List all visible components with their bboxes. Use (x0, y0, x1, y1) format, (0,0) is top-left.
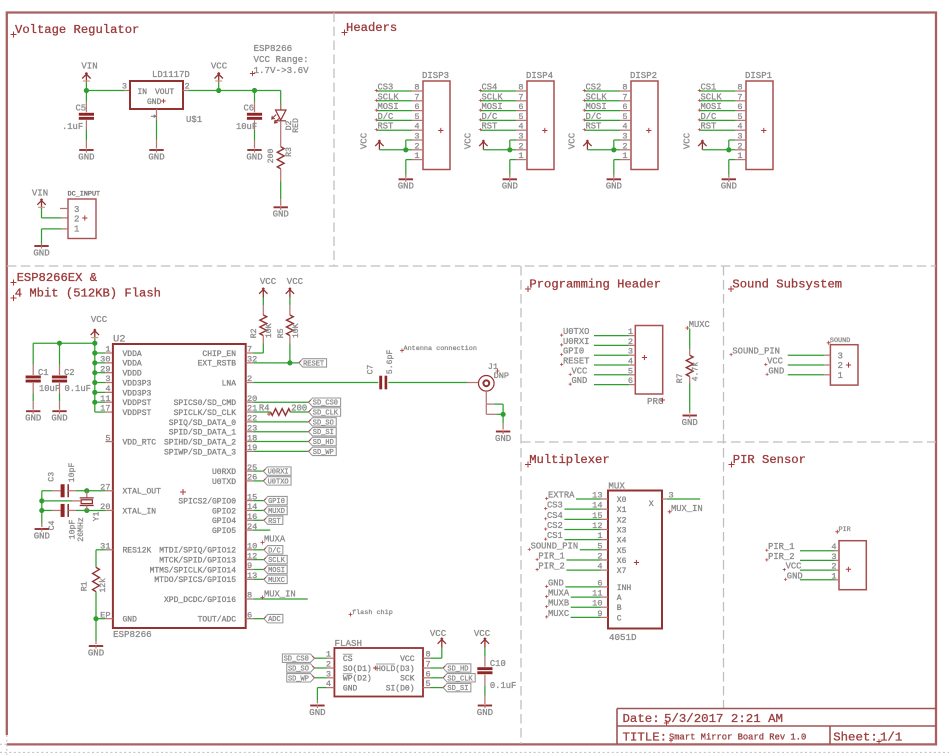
svg-text:GND: GND (273, 210, 289, 220)
U2 pin 21 (246, 411, 254, 413)
junction J1 shield (501, 412, 506, 417)
DISP1 pin 3 (735, 139, 746, 141)
U2 pin 8 (246, 598, 254, 600)
svg-text:VDD3P3: VDD3P3 (123, 379, 152, 388)
svg-text:VIN: VIN (32, 189, 48, 199)
svg-text:MOSI: MOSI (268, 567, 285, 575)
net flag SD_CLK (309, 408, 341, 416)
svg-text:6: 6 (247, 610, 252, 620)
svg-text:SCLK: SCLK (378, 92, 400, 102)
svg-text:SD_CS0: SD_CS0 (313, 400, 338, 408)
net flag SD_SO (309, 418, 337, 426)
svg-text:MOSI: MOSI (482, 102, 503, 112)
wire DISP2 pin 1 to ground (614, 159, 620, 161)
DISP4 pin 7 (516, 100, 527, 102)
DISP2 pin 5 (620, 119, 631, 121)
svg-text:U$1: U$1 (186, 115, 202, 125)
svg-text:200: 200 (267, 149, 276, 164)
svg-text:10uF: 10uF (236, 122, 257, 132)
DISP4 pin 2 (516, 149, 527, 151)
svg-text:PIR_1: PIR_1 (538, 551, 564, 561)
wire RES12K to R1 (96, 549, 105, 551)
svg-text:11: 11 (592, 589, 602, 599)
svg-text:VOUT: VOUT (155, 88, 174, 97)
svg-text:5.6pF: 5.6pF (386, 350, 395, 375)
svg-text:4 Mbit (512KB) Flash: 4 Mbit (512KB) Flash (15, 287, 161, 301)
DISP3 pin 8 (412, 90, 423, 92)
net flag D/C (264, 546, 283, 554)
net flag U0TXO (263, 477, 291, 485)
svg-text:4: 4 (622, 122, 627, 132)
capacitor C5 (85, 91, 87, 102)
svg-text:11: 11 (100, 394, 110, 404)
svg-text:27: 27 (100, 482, 110, 492)
U2 pin 20 (246, 401, 254, 403)
svg-text:GND: GND (477, 708, 493, 718)
svg-text:VCC: VCC (767, 357, 783, 367)
svg-text:SO(D1): SO(D1) (343, 665, 372, 674)
supply VCC R5 (286, 288, 294, 298)
svg-text:2: 2 (414, 141, 419, 151)
DISP2 pin 7 (620, 100, 631, 102)
ground U$1 (149, 149, 163, 151)
svg-text:XTAL_OUT: XTAL_OUT (123, 488, 162, 497)
svg-text:C5: C5 (75, 104, 86, 114)
DISP2 pin 4 (620, 129, 631, 131)
svg-text:CHIP_EN: CHIP_EN (202, 350, 236, 359)
svg-text:MUX_IN: MUX_IN (671, 504, 703, 514)
svg-text:ESP8266: ESP8266 (254, 43, 293, 54)
svg-text:4: 4 (628, 357, 633, 367)
svg-text:VDDPST: VDDPST (123, 409, 152, 418)
net flag SCLK (264, 555, 287, 563)
svg-text:VCC: VCC (464, 132, 474, 149)
wire R7 to ground (689, 377, 691, 384)
svg-text:R4: R4 (259, 403, 270, 413)
DISP4 pin 5 (516, 119, 527, 121)
wire R3 to ground (280, 169, 282, 182)
svg-text:SPID/SD_DATA_1: SPID/SD_DATA_1 (169, 429, 236, 438)
net flag U0RXI (263, 467, 291, 475)
svg-text:TOUT/ADC: TOUT/ADC (198, 616, 237, 625)
svg-text:2: 2 (247, 374, 252, 384)
DISP4 pin 1 (516, 159, 527, 161)
svg-text:LD1117D: LD1117D (152, 70, 190, 80)
junction VDD pin row 3 (92, 370, 97, 375)
svg-text:D/C: D/C (268, 547, 281, 555)
svg-text:8: 8 (622, 83, 627, 93)
U2 pin 5 VDD_RTC (n.c.) (105, 441, 113, 443)
wire U2 to SCLK flag (253, 559, 264, 561)
junction VIN node (84, 88, 89, 93)
svg-text:RST: RST (482, 122, 498, 132)
voltage regulator U$1 LD1117D (130, 81, 183, 109)
ground DISP4 (503, 178, 517, 180)
svg-text:MUXA: MUXA (264, 535, 286, 545)
svg-text:R5: R5 (277, 328, 286, 338)
svg-text:XTAL_IN: XTAL_IN (123, 507, 157, 516)
svg-text:SD_WP: SD_WP (313, 449, 334, 457)
svg-text:SD_SO: SD_SO (313, 419, 334, 427)
svg-text:6: 6 (622, 102, 627, 112)
svg-text:VCC: VCC (430, 629, 447, 639)
svg-text:SD_SI: SD_SI (447, 685, 468, 693)
svg-text:CS1: CS1 (547, 531, 563, 541)
svg-text:RST: RST (701, 122, 717, 132)
wire TOUT to ADC flag (253, 618, 264, 620)
svg-text:10uF: 10uF (39, 384, 60, 394)
svg-text:CS2: CS2 (547, 521, 563, 531)
junction VCC bus (92, 341, 97, 346)
svg-text:SPIHD/SD_DATA_2: SPIHD/SD_DATA_2 (164, 438, 236, 447)
supply VCC R2 (259, 288, 267, 298)
svg-text:DISP3: DISP3 (422, 71, 449, 81)
wire VDD row to U2 pin 1 (95, 352, 106, 354)
net flag SD_WP (flash) (287, 674, 315, 682)
svg-text:DISP4: DISP4 (526, 71, 553, 81)
svg-text:8: 8 (426, 650, 431, 660)
svg-text:1: 1 (831, 571, 836, 581)
connector DISP3 (423, 81, 450, 170)
wire VCC to power bus (94, 339, 96, 343)
svg-text:GPI0: GPI0 (563, 347, 584, 357)
svg-text:SD_SI: SD_SI (313, 429, 334, 437)
svg-text:C4: C4 (48, 521, 57, 531)
svg-text:VCC: VCC (474, 629, 491, 639)
svg-text:1: 1 (737, 151, 742, 161)
section divider vertical x=521 (520, 266, 522, 744)
svg-text:6: 6 (426, 669, 431, 679)
svg-text:U0TXD: U0TXD (212, 478, 236, 487)
svg-text:VCC: VCC (260, 277, 277, 287)
svg-text:1: 1 (414, 151, 419, 161)
ground C5 (79, 149, 93, 151)
svg-text:26MHz: 26MHz (77, 517, 86, 542)
svg-text:SD_CLK: SD_CLK (447, 675, 473, 683)
svg-text:MTCK/SPID/GPIO13: MTCK/SPID/GPIO13 (159, 557, 236, 566)
DISP4 pin 3 (516, 139, 527, 141)
svg-text:X0: X0 (617, 496, 627, 505)
svg-text:12k: 12k (98, 578, 108, 593)
junction XTAL_OUT (84, 488, 89, 493)
svg-text:2: 2 (831, 562, 836, 572)
svg-text:R1: R1 (80, 581, 89, 591)
svg-text:1: 1 (518, 151, 523, 161)
pin 3 stub DC_INPUT (n.c.) (60, 208, 68, 210)
svg-text:5: 5 (518, 112, 523, 122)
net flag SD_WP (309, 447, 337, 455)
wire net D/C to DISP1 (700, 119, 735, 121)
wire LNA to antenna (253, 382, 378, 384)
svg-text:5: 5 (105, 433, 110, 443)
svg-text:GND: GND (88, 648, 104, 658)
svg-text:VIN: VIN (81, 62, 97, 72)
FLASH pin 5 (423, 687, 431, 689)
wire net SCLK to DISP3 (377, 100, 412, 102)
svg-text:A: A (617, 594, 622, 603)
svg-text:CS3: CS3 (378, 83, 394, 93)
net flag SD_HD (flash) (443, 664, 471, 672)
svg-text:7: 7 (622, 92, 627, 102)
svg-text:VDDA: VDDA (123, 350, 142, 359)
wire net D/C to DISP3 (377, 119, 412, 121)
svg-text:0.1uF: 0.1uF (65, 384, 91, 394)
svg-text:PIR_2: PIR_2 (768, 552, 794, 562)
wire net RST to DISP4 (481, 129, 516, 131)
section divider vertical x=723.5 (723, 266, 725, 709)
DISP2 pin 1 (620, 159, 631, 161)
svg-text:MUXB: MUXB (548, 599, 569, 609)
junction VCC DISP3 (403, 147, 408, 152)
junction RESET net (287, 360, 292, 365)
svg-text:3: 3 (737, 132, 742, 142)
ground DISP3 (399, 178, 413, 180)
svg-text:IN: IN (138, 88, 148, 97)
svg-text:D/C: D/C (482, 112, 498, 122)
svg-text:3: 3 (622, 132, 627, 142)
FLASH pin 3 (327, 677, 335, 679)
wire power bus vertical (94, 343, 96, 412)
svg-text:1/1: 1/1 (880, 731, 902, 745)
capacitor C6 (254, 91, 256, 102)
DISP1 pin 8 (735, 90, 746, 92)
wire DISP4 pin 1 to ground (510, 159, 516, 161)
ground C2 (52, 410, 66, 412)
svg-text:CS3: CS3 (547, 501, 563, 511)
svg-text:10pF: 10pF (68, 463, 77, 483)
net flag MOSI (264, 565, 287, 573)
net flag RST (264, 516, 283, 524)
wire U2 to SD_CS0 flag (253, 401, 308, 403)
svg-text:1: 1 (74, 225, 79, 235)
capacitor C2 (59, 343, 61, 364)
wire VDD row to U2 pin 29 (95, 372, 106, 374)
wire SPICLK to R4 (253, 411, 270, 413)
svg-text:7: 7 (737, 92, 742, 102)
wire VCC to DISP4 pins 2,3 (483, 149, 516, 151)
svg-text:4051D: 4051D (609, 632, 637, 643)
svg-text:RST: RST (378, 122, 394, 132)
title block (617, 709, 936, 745)
wire DC_INPUT pin 1 to ground (42, 228, 62, 230)
FLASH pin 4 (327, 687, 335, 689)
svg-text:VCC: VCC (91, 315, 108, 325)
wire VDD row to U2 pin 3 (95, 382, 106, 384)
svg-text:MTMS/SPICLK/GPIO14: MTMS/SPICLK/GPIO14 (150, 566, 237, 575)
svg-text:SPICS0/SD_CMD: SPICS0/SD_CMD (174, 399, 237, 408)
connector DISP2 (631, 81, 658, 170)
section divider horizontal y=442 (521, 441, 936, 443)
svg-text:MUXC: MUXC (689, 320, 710, 330)
wire net RST to DISP1 (700, 129, 735, 131)
wire VIN to DC_INPUT pin 2 (41, 209, 43, 218)
wire crystal case pin (42, 500, 72, 502)
svg-text:GND: GND (34, 531, 50, 541)
svg-text:C3: C3 (48, 472, 57, 482)
wire U2 to MOSI flag (253, 568, 264, 570)
svg-text:C1: C1 (38, 368, 49, 378)
svg-text:7: 7 (426, 660, 431, 670)
wire SD_CS0 to FLASH (315, 657, 327, 659)
svg-text:ESP8266EX &: ESP8266EX & (17, 271, 98, 285)
svg-text:PIR Sensor: PIR Sensor (733, 453, 806, 467)
ground ESP8266 (89, 645, 103, 647)
svg-text:4.7k: 4.7k (691, 362, 701, 382)
wire R5 to RESET net (289, 344, 291, 363)
wire net RST to DISP3 (377, 129, 412, 131)
junction EP node (93, 616, 98, 621)
DISP1 pin 7 (735, 100, 746, 102)
connector DISP1 (746, 81, 773, 170)
resistor R1 12k (93, 567, 100, 591)
svg-text:SPICS2/GPIO0: SPICS2/GPIO0 (178, 498, 236, 507)
svg-text:VCC: VCC (786, 562, 802, 572)
DISP3 pin 5 (412, 119, 423, 121)
net flag MUXD (264, 506, 287, 514)
svg-text:X4: X4 (617, 537, 627, 546)
wire SD_WP to FLASH (315, 677, 327, 679)
junction VDD pin row 6 (92, 400, 97, 405)
wire VCC to DISP3 pins 2,3 (379, 149, 412, 151)
svg-text:VCC: VCC (211, 62, 228, 72)
svg-text:U0TXO: U0TXO (268, 478, 289, 486)
svg-text:SCLK: SCLK (482, 92, 504, 102)
wire R1 to EP/GND (95, 592, 97, 619)
wire VIN node to U$1 pin 3 (86, 90, 124, 92)
svg-text:2: 2 (622, 141, 627, 151)
svg-text:MUXD: MUXD (268, 508, 285, 516)
net flag ADC (264, 614, 283, 622)
ground DISP2 (607, 178, 621, 180)
ground C1 (26, 410, 40, 412)
svg-text:WP(D2): WP(D2) (343, 675, 372, 684)
svg-text:B: B (617, 604, 622, 613)
net flag SD_CS0 (309, 398, 341, 406)
svg-text:MUXC: MUXC (548, 609, 569, 619)
wire net MOSI to DISP3 (377, 110, 412, 112)
wire U2 to D/C flag (253, 549, 264, 551)
svg-text:Antenna connection: Antenna connection (404, 345, 477, 353)
junction VCC DISP4 (507, 147, 512, 152)
svg-text:Smart Mirror Board Rev 1.0: Smart Mirror Board Rev 1.0 (669, 733, 806, 743)
net flag SD_SI (309, 428, 337, 436)
svg-text:GND: GND (548, 578, 564, 588)
junction VDD pin row 1 (92, 350, 97, 355)
svg-text:1: 1 (105, 345, 110, 355)
svg-text:1: 1 (838, 371, 843, 381)
svg-text:2: 2 (518, 141, 523, 151)
svg-text:6: 6 (737, 102, 742, 112)
wire net MOSI to DISP1 (700, 110, 735, 112)
U2 pin 6 (246, 618, 254, 620)
net flag RESET (299, 359, 327, 367)
wire net RST to DISP2 (585, 129, 620, 131)
svg-text:9: 9 (597, 609, 602, 619)
resistor R4 200 (271, 409, 291, 416)
svg-text:2: 2 (628, 337, 633, 347)
svg-text:R3: R3 (285, 147, 294, 157)
svg-text:GND: GND (148, 152, 164, 162)
svg-text:HOLD(D3): HOLD(D3) (376, 665, 414, 674)
svg-text:PIR_2: PIR_2 (538, 562, 564, 572)
svg-text:VCC: VCC (568, 132, 578, 149)
svg-text:VDDPST: VDDPST (123, 399, 152, 408)
U2 pin 32 (246, 362, 254, 364)
svg-text:GND: GND (309, 708, 325, 718)
svg-text:RST: RST (586, 122, 602, 132)
wire XTAL ground branch (41, 491, 43, 524)
capacitor C3 10pF (42, 490, 52, 492)
U2 pin 13 (246, 578, 254, 580)
svg-text:4: 4 (518, 122, 523, 132)
U2 pin 19 (246, 450, 254, 452)
svg-text:CS4: CS4 (547, 511, 563, 521)
ground DISP1 (722, 178, 736, 180)
wire J1 shield to ground (485, 391, 487, 414)
svg-text:X7: X7 (617, 567, 627, 576)
svg-text:GND: GND (682, 418, 698, 428)
U2 pin 12 (246, 559, 254, 561)
junction C2 tap (57, 341, 62, 346)
svg-text:VCC: VCC (400, 655, 415, 664)
wire VCC to DISP1 pins 2,3 (702, 149, 735, 151)
frame bottom tick line (0, 751, 949, 753)
DISP2 pin 6 (620, 110, 631, 112)
svg-text:DNP: DNP (494, 371, 509, 381)
DISP3 pin 6 (412, 110, 423, 112)
svg-text:5/3/2017 2:21 AM: 5/3/2017 2:21 AM (664, 712, 783, 726)
junction VDD pin row 4 (92, 380, 97, 385)
net flag SD_SI (flash) (443, 683, 471, 691)
svg-text:5: 5 (414, 112, 419, 122)
U2 pin 26 (246, 480, 254, 482)
wire R2 to CHIP_EN (262, 344, 264, 354)
svg-text:3: 3 (414, 132, 419, 142)
svg-text:VCC: VCC (683, 132, 693, 149)
svg-text:GND: GND (502, 182, 518, 192)
svg-text:VCC: VCC (287, 277, 304, 287)
wire net CS4 to DISP4 (481, 90, 516, 92)
svg-text:MUXC: MUXC (268, 577, 285, 585)
junction C6 node (252, 88, 257, 93)
svg-text:6: 6 (518, 102, 523, 112)
DISP4 pin 4 (516, 129, 527, 131)
svg-text:INH: INH (617, 584, 632, 593)
wire net SCLK to DISP1 (700, 100, 735, 102)
wire power bus horizontal (33, 342, 95, 344)
svg-text:GND: GND (721, 182, 737, 192)
wire GPIO5 net MUXA (253, 529, 270, 531)
wire R4 to SD_CLK flag (290, 411, 308, 413)
flash memory IC FLASH (334, 648, 423, 697)
svg-text:SD_CLK: SD_CLK (313, 410, 339, 418)
svg-text:2: 2 (74, 214, 79, 224)
wire U0RXD to flag (253, 470, 263, 472)
svg-text:RES12K: RES12K (123, 547, 152, 556)
svg-text:VCC: VCC (572, 366, 588, 376)
svg-text:U2: U2 (113, 334, 126, 346)
svg-text:U0RXI: U0RXI (563, 337, 589, 347)
svg-text:1.7V->3.6V: 1.7V->3.6V (254, 65, 310, 76)
net flag GPI0 (264, 496, 287, 504)
svg-text:SCK: SCK (400, 675, 415, 684)
DISP3 pin 2 (412, 149, 423, 151)
junction VCC node (216, 88, 221, 93)
svg-text:3: 3 (669, 491, 674, 501)
svg-text:MOSI: MOSI (586, 102, 607, 112)
wire U$1 pin 2 to LED branch (183, 90, 188, 92)
svg-text:4: 4 (597, 562, 602, 572)
